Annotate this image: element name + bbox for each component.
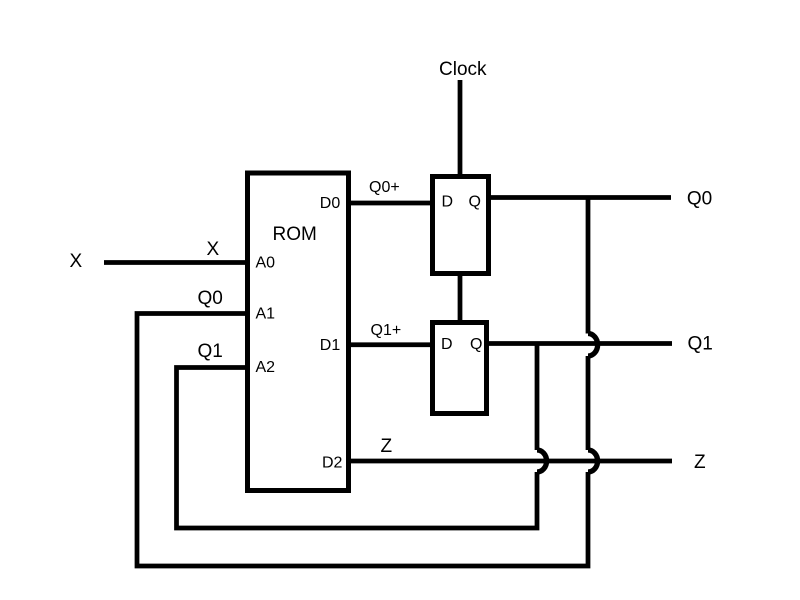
- svg-text:ROM: ROM: [273, 224, 317, 245]
- svg-text:Q1: Q1: [198, 341, 223, 362]
- flip-flop U2 (D flip-flop): [433, 177, 489, 274]
- wire: Q1 feedback run (right drop, bottom run, left riser, into A2): [177, 344, 538, 529]
- svg-text:Clock: Clock: [439, 59, 487, 80]
- wire: Q0 output from U2: [489, 195, 672, 200]
- svg-text:Q: Q: [469, 194, 481, 211]
- svg-text:Q0: Q0: [198, 288, 223, 309]
- ROM U1: [248, 173, 349, 491]
- svg-text:Q0: Q0: [687, 188, 712, 209]
- svg-text:D: D: [441, 336, 453, 353]
- wire hop: Q0 drop over Z line: [588, 450, 598, 472]
- svg-text:Z: Z: [694, 452, 706, 473]
- svg-text:A0: A0: [256, 254, 276, 271]
- wire: Q0 feedback run (right drop, bottom run, left riser, into A1): [137, 198, 588, 567]
- wire: Z output from D2: [349, 459, 673, 464]
- wire: X input to A0: [104, 260, 248, 265]
- wire: Clock into FF1: [458, 80, 463, 177]
- wire: D0 to D of U2: [349, 201, 433, 206]
- svg-text:D1: D1: [320, 337, 341, 354]
- svg-text:X: X: [70, 251, 83, 272]
- svg-text:D: D: [442, 194, 454, 211]
- wire: D1 to D of U3: [349, 342, 433, 347]
- svg-text:A1: A1: [256, 306, 276, 323]
- wire: clock chain FF1 bottom to FF2 top: [458, 274, 463, 323]
- svg-text:Z: Z: [381, 436, 393, 457]
- svg-text:A2: A2: [256, 359, 276, 376]
- svg-text:Q1: Q1: [688, 333, 713, 354]
- svg-text:D2: D2: [322, 454, 343, 471]
- svg-text:Q1+: Q1+: [371, 322, 402, 339]
- flip-flop U3 (D flip-flop): [433, 323, 487, 414]
- svg-text:D0: D0: [320, 195, 341, 212]
- svg-text:Q0+: Q0+: [369, 179, 400, 196]
- wire: Q1 output from U3: [487, 341, 673, 346]
- wire hop: Q1 drop over Z line: [537, 450, 547, 472]
- svg-text:Q: Q: [470, 336, 482, 353]
- wire hop: Q0 drop over Q1 line: [588, 334, 598, 357]
- svg-text:X: X: [207, 239, 220, 260]
